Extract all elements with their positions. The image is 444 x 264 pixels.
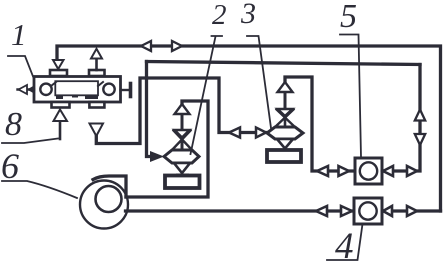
valve 3 lens body (267, 127, 303, 139)
svg-text:2: 2 (212, 0, 227, 31)
unit 1 bottom-left port arrow (up) with stem, node 8 (59, 121, 62, 139)
valve 2 top arrow (181, 114, 184, 150)
unit 1 left outlet wire with arrows (18, 88, 35, 90)
svg-text:5: 5 (340, 0, 357, 35)
wire: line C from unit 1 bottom-right port to valve 3 input (96, 78, 267, 144)
wire: valve 3 top outlet loop down to valve 5 row (285, 77, 355, 171)
arrow pair on x420 vertical (hollow up / hollow down) (415, 110, 425, 146)
unit 1 top-left port arrow (down) (53, 60, 64, 69)
label 4 leader (327, 224, 363, 260)
label 5 leader (340, 35, 361, 158)
wire: bottom return line to valve 4 row (126, 209, 441, 212)
unit 1 top-right port arrow (up) with stem (95, 59, 98, 71)
svg-text:3: 3 (240, 0, 256, 30)
valve 3 cross diagonals (274, 110, 296, 129)
pump 6 (centrifugal) (80, 181, 128, 229)
arrow pair on line A (hollow left / hollow right) (141, 41, 182, 51)
unit 1: dosing unit body (34, 77, 121, 103)
valve 5 row arrows: left pair (317, 166, 349, 176)
valve 3 top arrow (284, 92, 287, 109)
svg-text:4: 4 (335, 226, 354, 264)
label 3 leader (247, 36, 271, 128)
label 6 leader (2, 181, 77, 198)
label 8 leader (2, 139, 58, 144)
valve 5 row arrows: right pair (383, 166, 417, 176)
valve 3 input arrow pair (229, 128, 266, 138)
wire: second top line B (147, 62, 421, 65)
wire: line B right drop (x420) to valve 5 row (382, 65, 420, 172)
pump outlet duct (93, 176, 126, 197)
wire: line B left drop into valve 2 input (147, 62, 153, 157)
valve 2 lower seat triangle (174, 163, 190, 173)
gauge 4 square (354, 198, 382, 224)
valve 2 cross diagonals (171, 131, 193, 152)
wire: valve 2 top outlet loop down to pump outlet line (126, 101, 208, 197)
unit 1 flanges (ports) (50, 70, 105, 108)
valve 3 lower seat triangle (277, 139, 293, 149)
valve 2 upper seat triangle (175, 130, 190, 138)
valve 3 upper seat triangle (278, 109, 293, 116)
valve 3 base box (267, 150, 301, 162)
valve 2 input arrow (solid) (150, 151, 164, 162)
valve 2 (164, 104, 200, 188)
label 2 leader (191, 36, 223, 154)
label 1 leader (8, 56, 34, 79)
svg-text:6: 6 (1, 146, 19, 186)
valve 2 base box (165, 176, 200, 189)
unit 1 interior marks (51, 82, 103, 86)
gauge 5 square (355, 158, 382, 184)
valve 4 row arrows: right pair (383, 206, 417, 216)
svg-text:8: 8 (5, 106, 22, 143)
unit 1 bottom-right port arrow (down) (90, 124, 104, 137)
valve 4 row arrows: left pair (316, 206, 352, 216)
unit 1 right plugged port (121, 89, 131, 91)
svg-text:1: 1 (11, 17, 27, 52)
wire: top line A with left drop to unit 1 port and right outer drop (57, 46, 441, 211)
valve 3 (267, 82, 303, 162)
valve 2 lens body (164, 150, 199, 163)
